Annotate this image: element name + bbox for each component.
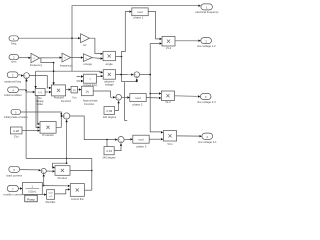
wire mod phase 1 output to product Va top input [148,12,159,39]
svg-text:V3-1: V3-1 [167,143,173,146]
arrow into current time input 1 [81,75,84,77]
mod block phase 1 [132,8,148,16]
input port 5 initial phase of stator [11,109,21,114]
wire rotational freq input to sum D [18,74,21,76]
arrow into angle product top [101,53,104,55]
arrow into sum F bottom [43,174,45,177]
svg-text:1/u: 1/u [85,90,89,94]
input port 3 rotational freq [7,72,18,78]
svg-text:ladder: ladder [37,103,44,106]
arrow into line voltage 1-2 port [198,40,201,42]
arrow into sum A bottom [136,78,138,81]
svg-text:2p: 2p [85,58,87,60]
arrow into transfer fcn [20,187,23,189]
svg-text:Product4: Product4 [54,97,65,100]
svg-text:phase 1: phase 1 [134,15,144,19]
arrow into Product3 input 2 [38,126,41,128]
arrow into abs block [69,88,72,90]
wire amplitude riser vertical [150,44,161,132]
gain omega [83,54,92,62]
svg-text:|u|: |u| [73,90,76,92]
svg-text:0.02s+1: 0.02s+1 [28,192,37,194]
node on transfer fcn output [43,185,45,187]
arrow into flux table left [33,91,36,93]
svg-text:6.28: 6.28 [13,129,19,133]
product Vb [161,91,174,101]
arrow into advance product top [101,71,104,73]
wire into flux table left input [26,91,32,93]
arrow into reciprocal block [79,88,82,90]
wire gain Hz output down to angle product [89,38,100,53]
svg-text:Pump: Pump [27,197,35,201]
abs block [71,86,77,93]
arrow into gain Hz [78,37,81,39]
svg-text:voltage: voltage [105,83,114,87]
arrow into sum A left [131,73,134,75]
wire angle riser down to sum A bottom [122,57,137,82]
node on horizontal bus [53,70,55,72]
product Product3 [40,122,56,134]
arrow into Product4 lower [49,91,52,93]
output port 1 electrical frequency [201,4,213,10]
svg-text:rpm: rpm [11,59,17,63]
svg-text:frequency: frequency [30,63,43,67]
wire sum C output to mod phase 3 [124,138,130,140]
arrow into sum F left [39,169,42,171]
gain frequency [31,53,40,62]
arrow into gain frequency1 [60,56,63,58]
wire load current input to sum F [20,169,38,171]
product Vc [163,131,176,141]
wire flux table output 1 to Product3 [36,96,38,124]
wire mod phase 3 output to product Vc bottom input [149,138,160,140]
mod block phase 3 [133,135,149,143]
svg-text:load current: load current [6,173,22,177]
wire stub into rectifier block [42,194,44,196]
wire segment right of sum B [125,82,128,120]
label box Pump [25,195,37,202]
gain Hz [81,34,90,43]
svg-text:phase 2: phase 2 [133,103,143,107]
arrow into sum E left [61,115,64,117]
arrow into angle product bottom [101,57,104,59]
node bus branch [66,162,68,164]
node at sum A bottom corner [136,81,138,83]
svg-text:line voltage 3-1: line voltage 3-1 [198,140,217,144]
arrow into current time input 2 [81,80,84,82]
arrow into mod phase 1 [129,10,132,12]
sum F load current [41,168,46,173]
wire to electrical frequency output [72,6,198,39]
node on sum C input wire [106,139,108,141]
wire lower bus horizontal [26,157,92,159]
svg-text:linkage: linkage [36,101,44,103]
svg-text:Product3: Product3 [42,133,54,137]
product Va [162,36,175,46]
arrow into product Vb bottom [159,97,162,99]
arrow into product Vb top [159,92,162,94]
svg-text:Function1: Function1 [61,100,72,103]
input port 1 freq [9,36,18,41]
wire gain omega to angle product [92,57,100,60]
svg-text:initial condition: initial condition [4,93,22,97]
wire flux table to Product4 lower input [45,91,49,93]
wire left column bus vertical [25,79,27,158]
node product outputs on right bus [91,170,93,172]
wire constant 240 degree up to sum C bottom [114,143,121,150]
constant 6.28 (2*pi) [10,127,22,134]
wire gain frequency to gain frequency1 [40,57,60,59]
wire sum E output to sum C [70,116,115,140]
arrow into sum D bottom [25,79,27,82]
node amplitude at sum A level [149,74,151,76]
arrow into line voltage 2-3 port [198,95,201,97]
product Product [55,166,70,176]
wire freq junction down to horizontal bus [71,38,73,71]
wire horizontal to advance voltage product [36,71,101,72]
sum C phase 3 [118,137,124,143]
arrow into product Vc bottom [161,138,164,140]
wire amplitude to product Va bottom input [150,43,159,45]
svg-text:phase 3: phase 3 [136,145,146,149]
svg-text:frequency1: frequency1 [60,64,73,68]
arrow into Product3 input 3 [38,129,41,131]
arrow into gain omega [81,56,84,58]
wire flux table output 2 to Product3 [36,96,37,128]
arrow into sum B bottom [117,101,119,104]
wire constant 120 degree up to sum B bottom [115,102,119,111]
wire product Vb output to line voltage 2-3 port [175,95,198,98]
arrow into sum C left [115,138,118,140]
svg-text:freq: freq [11,41,17,45]
arrow into Product lower [53,170,56,172]
input port 7 rectifier current [7,185,18,191]
wire current flux product output to right bus [84,189,91,191]
wire angle product output to riser [116,56,122,58]
wire bus branch to Product upper input [52,163,66,167]
arrow into line voltage 3-1 port [199,135,202,137]
input port 2 rpm [9,55,19,60]
node on advance wire [120,74,122,76]
arrow into sum E bottom [65,120,67,123]
wire transfer fcn output to current flux product [42,185,67,187]
svg-text:line voltage 2-3: line voltage 2-3 [197,100,216,104]
wire transfer fcn riser to sum F bottom [43,175,45,185]
svg-text:Fcn: Fcn [72,97,77,100]
svg-text:mod: mod [137,10,143,14]
svg-text:240 degree: 240 degree [102,155,116,159]
svg-text:V2-3: V2-3 [165,101,171,104]
svg-text:1: 1 [83,38,84,40]
arrow into current flux product lower [68,188,71,190]
wire sum A output to amplitude riser [140,74,150,76]
svg-text:omega: omega [83,62,92,66]
wire sum B output to mod phase 2 [122,96,127,98]
wire rpm input to gain frequency [19,57,29,59]
sum E initial phase [63,113,69,119]
wire current time output to advance product [97,75,101,77]
mod block phase 2 [130,94,146,102]
constant 2.09 (120 degree) [104,107,115,115]
wire sum D output to Product4 [30,76,49,88]
wire Product4 to abs block [66,89,69,91]
wire initial condition input to column bus [19,89,26,91]
gain frequency1 [62,53,71,62]
arrow into product Va top [160,38,163,40]
wire branch down from gain frequency output [41,58,54,63]
wire rectifier current input to transfer fcn [18,188,19,190]
svg-text:1/2: 1/2 [33,58,35,60]
wire amplitude to product Vb top input [150,93,158,95]
sum B phase 2 [116,94,122,100]
svg-text:electrical frequency: electrical frequency [195,10,219,14]
arrow into mod phase 2 [127,96,130,98]
wire branch down to Product4 top input [53,63,55,85]
product angle [103,51,116,60]
svg-text:Function: Function [84,102,95,106]
product Product4 [52,85,66,96]
arrow into rectifier block [44,193,47,195]
arrow into current flux product upper [68,185,71,187]
svg-text:2.09: 2.09 [106,109,112,113]
node sum E riser on bus [66,158,68,160]
wire product Va output to line voltage 1-2 port [175,40,198,42]
wire angle riser up to mod phase 1 [122,12,130,57]
node initial condition junction [25,90,27,92]
wire Product3 output riser to sum E [56,116,61,127]
svg-text:[x;x]: [x;x] [38,92,42,94]
wire right bus vertical [91,158,93,190]
input port 6 load current [9,166,20,172]
node angle output junction [121,56,123,58]
wire stub current time input 2 [77,80,81,82]
svg-text:2*pi: 2*pi [14,134,19,138]
sum A advance plus angle [134,72,140,78]
arrow into product Va bottom [160,42,163,44]
product current flux [70,184,84,197]
wire initial phase of stator input [21,112,62,116]
svg-text:Rectifier: Rectifier [46,200,56,204]
arrow into flux table top [34,86,36,89]
svg-text:line voltage 1-2: line voltage 1-2 [197,44,216,48]
svg-text:Product: Product [58,176,68,180]
node at branch corner [53,62,55,64]
wire advance voltage product to sum A [116,74,131,76]
wire stub current time input 1 [77,76,81,78]
arrow into electrical frequency port [198,5,201,7]
wire down into flux table block [35,71,37,88]
transfer fcn filter block [23,182,43,194]
product advance voltage [103,70,115,80]
svg-text:120 degree: 120 degree [103,115,117,119]
arrow into Product upper [53,166,56,168]
current time block [84,74,97,83]
wire abs block to reciprocal block [77,89,78,91]
svg-text:mod: mod [138,138,144,142]
arrow into gain frequency [29,57,32,59]
wire sum E bottom riser from lower bus [66,121,68,163]
output port 4 line voltage 3-1 [202,133,213,139]
arrow into mod phase 3 [130,138,133,140]
svg-text:mod: mod [135,96,141,100]
node amplitude at Vb level [149,93,151,95]
arrow into product Vc top [161,131,164,133]
node initial phase junction [61,113,63,115]
wire sum F output to Product lower input [46,170,52,172]
svg-text:rectifier current: rectifier current [3,193,22,197]
rectifier block [47,190,55,200]
flux table block [35,89,45,96]
reciprocal block [82,86,94,96]
constant 4.19 (240 degree) [104,147,114,155]
wire mod phase 2 output to product Vb bottom input [146,97,158,99]
svg-text:advance: advance [104,79,115,83]
arrow into sum D left [21,74,24,76]
node on freq wire [71,37,73,39]
wire product Vc output to line voltage 3-1 port [177,135,200,137]
svg-text:V1-2: V1-2 [166,47,172,50]
arrow into sum B left [113,96,116,98]
svg-text:1/2: 1/2 [64,58,66,60]
svg-text:4.19: 4.19 [106,149,112,153]
wire stub down from node [106,140,108,147]
wire constant 2*pi to Product3 [22,130,37,132]
arrow into Product3 input 1 [38,123,41,125]
svg-text:angle: angle [106,62,113,66]
svg-text:initial phase of stator: initial phase of stator [4,115,28,119]
wire rectifier block to current flux product lower input [55,189,68,194]
sum D rotational [24,73,30,79]
output port 3 line voltage 2-3 [200,94,211,100]
wire freq input to gain Hz [18,37,78,39]
wire Product output to right bus [70,170,92,172]
svg-text:current flux: current flux [71,197,85,201]
arrow into sum C bottom [120,143,122,146]
svg-text:rotational freq: rotational freq [4,79,22,83]
output port 2 line voltage 1-2 [201,38,212,44]
wire gain frequency1 to gain omega [71,57,81,59]
arrow into Product4 upper [49,87,52,89]
arrow into advance product bottom [101,75,104,77]
wire reciprocal block to sum B [93,91,112,97]
arrow into Product4 top [52,82,54,85]
input port 4 initial condition [8,87,19,93]
